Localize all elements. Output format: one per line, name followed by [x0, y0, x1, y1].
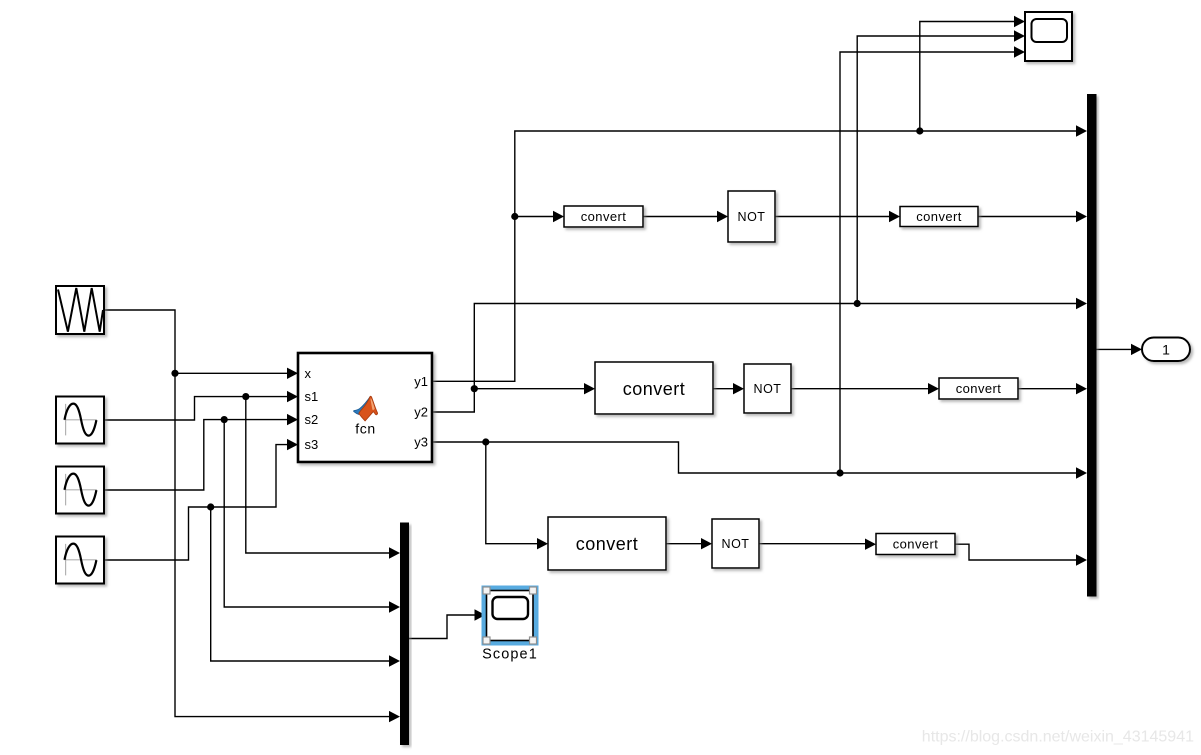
- arrow: Scope in3: [1014, 46, 1025, 57]
- wire: branch y3 down to big convert (bottom row): [486, 442, 546, 544]
- wire: branch y1 row up to Scope in1: [920, 22, 1023, 132]
- arrow: fcn s1: [287, 391, 298, 402]
- arrow: Mux2 in2: [389, 601, 400, 612]
- svg-text:NOT: NOT: [722, 537, 750, 551]
- source block: Sine Wave1: [56, 467, 104, 514]
- icon: MATLAB membrane logo blue wing: [354, 397, 371, 415]
- wire: fcn y1 up and across to Mux1 in1: [432, 131, 1085, 381]
- block: Out1 port oval: [1142, 338, 1190, 362]
- icon: scope screen: [1032, 19, 1068, 42]
- block: Data Type Conversion (top-right small convert): [900, 207, 978, 227]
- block: Scope (top right): [1025, 12, 1072, 61]
- wire: fcn y2 up and across to Mux1 in3: [432, 304, 1085, 413]
- block: Scope1 (selected): [482, 586, 539, 663]
- svg-text:y2: y2: [414, 405, 428, 420]
- junction: y2 to middle convert: [471, 385, 478, 392]
- wire: Repeating Sequence out to Mux2 in4 trunk: [104, 310, 398, 717]
- block: Mux2 (small vertical bar): [400, 523, 409, 746]
- arrow: convert top-right in: [889, 211, 900, 222]
- svg-text:NOT: NOT: [754, 382, 782, 396]
- wire: branch y2 to big convert (middle row): [474, 388, 593, 390]
- block: MATLAB Function fcn: [298, 353, 432, 462]
- selection highlight frame: [482, 586, 539, 646]
- wire: branch s1 signal down to Mux2 in1: [246, 397, 398, 553]
- arrow: big convert middle in: [584, 383, 595, 394]
- svg-text:NOT: NOT: [738, 210, 766, 224]
- wire: branch y1 to convert (top row): [515, 216, 562, 218]
- icon: sine curve: [65, 544, 97, 576]
- wire: big convert bottom out to NOT bottom in: [666, 543, 710, 545]
- svg-text:https://blog.csdn.net/weixin_4: https://blog.csdn.net/weixin_43145941: [922, 729, 1194, 746]
- svg-text:convert: convert: [916, 209, 961, 224]
- junction: y2 row to Scope: [854, 300, 861, 307]
- arrowheads: [287, 16, 1142, 723]
- wire: convert mid-right out to Mux1 in4: [1018, 388, 1085, 390]
- arrow: convert bottom-right in: [865, 539, 876, 550]
- icon: axes: [65, 474, 97, 506]
- wire: Sine1 out to fcn input s1: [104, 397, 296, 420]
- junction: y3 row to Scope: [836, 469, 843, 476]
- arrow: Mux2 in3: [389, 655, 400, 666]
- source block: Sine Wave2: [56, 537, 104, 584]
- svg-text:s3: s3: [305, 437, 319, 452]
- junction: s1 branch: [242, 393, 249, 400]
- icon: triangle waveform: [58, 288, 103, 332]
- wire: branch y2 row up to Scope in2: [857, 36, 1023, 304]
- arrow: Mux1 in4: [1076, 383, 1087, 394]
- arrow: fcn s3: [287, 439, 298, 450]
- arrow: Scope1 in: [475, 609, 486, 620]
- wire: big convert out to NOT middle in: [713, 388, 742, 390]
- icon: axes: [65, 404, 97, 436]
- icon: axes: [65, 544, 97, 576]
- scope1 body: [487, 591, 534, 641]
- junction: y1 row to Scope: [916, 127, 923, 134]
- wire: branch to fcn input x: [175, 372, 296, 374]
- svg-text:y3: y3: [414, 435, 428, 450]
- block: Data Type Conversion (bottom-right small convert): [876, 534, 955, 555]
- arrow: Scope in1: [1014, 16, 1025, 27]
- arrow: fcn s2: [287, 414, 298, 425]
- block: Data Type Conversion (bottom big convert): [548, 517, 666, 570]
- wire: branch s2 signal down to Mux2 in2: [224, 420, 398, 607]
- arrow: Mux1 in6: [1076, 554, 1087, 565]
- wire: NOT top out to convert top-right in: [775, 216, 898, 218]
- junction: x branch: [171, 370, 178, 377]
- block: Logical Operator NOT (top): [728, 191, 775, 242]
- icon: sine curve: [65, 404, 97, 436]
- source block: Repeating Sequence: [56, 286, 104, 334]
- junction: s2 branch: [221, 416, 228, 423]
- wire: Sine2 out to fcn input s2: [104, 420, 296, 490]
- arrow: Mux2 in1: [389, 547, 400, 558]
- wire: convert top-right out to Mux1 in2: [978, 216, 1085, 218]
- source block: Sine Wave: [56, 397, 104, 444]
- arrow: NOT top in: [717, 211, 728, 222]
- arrow: fcn x: [287, 368, 298, 379]
- block: Mux1 (large vertical bar): [1087, 94, 1097, 597]
- svg-text:convert: convert: [956, 381, 1001, 396]
- svg-text:s1: s1: [305, 389, 319, 404]
- svg-text:convert: convert: [576, 534, 639, 554]
- svg-text:convert: convert: [623, 379, 686, 399]
- icon: scope1 screen: [493, 597, 529, 619]
- arrow: Mux1 in1: [1076, 125, 1087, 136]
- wire: convert top out to NOT top in: [643, 216, 726, 218]
- block: Data Type Conversion (mid-right small convert): [939, 378, 1018, 399]
- wire: Mux1 out to Out1 port: [1097, 348, 1141, 350]
- arrow: NOT middle in: [733, 383, 744, 394]
- icon: MATLAB membrane logo orange body: [359, 396, 378, 421]
- arrow: Mux1 in2: [1076, 211, 1087, 222]
- block: Data Type Conversion (top small convert): [564, 206, 643, 227]
- arrow: Mux1 in5: [1076, 467, 1087, 478]
- wire: Sine3 out to fcn input s3: [104, 445, 296, 560]
- junction: s3 branch: [207, 503, 214, 510]
- arrow: Out1 in: [1131, 344, 1142, 355]
- wire: NOT bottom out to convert bottom-right in: [759, 543, 874, 545]
- arrow: Mux1 in3: [1076, 298, 1087, 309]
- block: Logical Operator NOT (middle): [744, 364, 791, 413]
- svg-text:fcn: fcn: [355, 421, 375, 437]
- wire: fcn y3 across and down to Mux1 in5: [432, 442, 1085, 473]
- wire: branch y3 row up to Scope in3: [840, 52, 1023, 473]
- junction: y1 to top convert: [511, 213, 518, 220]
- svg-text:y1: y1: [414, 374, 428, 389]
- icon: sine curve: [65, 474, 97, 506]
- wire: convert bottom-right out to Mux1 in6: [955, 544, 1085, 560]
- svg-text:x: x: [305, 366, 312, 381]
- icon: MATLAB logo highlight: [371, 398, 375, 409]
- wire: Mux2 out to Scope1 in: [409, 615, 483, 639]
- arrow: Mux2 in4: [389, 711, 400, 722]
- svg-text:s2: s2: [305, 412, 319, 427]
- wire: branch s3 signal down to Mux2 in3: [211, 507, 398, 661]
- arrow: NOT bottom in: [701, 538, 712, 549]
- block: Logical Operator NOT (bottom): [712, 519, 759, 568]
- arrow: convert top in: [553, 211, 564, 222]
- arrow: convert mid-right in: [928, 383, 939, 394]
- junction: y3 to bottom convert: [482, 438, 489, 445]
- svg-text:convert: convert: [581, 209, 626, 224]
- wire: NOT middle out to convert mid-right in: [791, 388, 937, 390]
- arrow: Scope in2: [1014, 30, 1025, 41]
- svg-text:1: 1: [1162, 342, 1170, 358]
- arrow: big convert bottom in: [537, 538, 548, 549]
- svg-text:convert: convert: [893, 537, 938, 552]
- block: Data Type Conversion (middle big convert): [595, 362, 713, 414]
- svg-text:Scope1: Scope1: [482, 647, 538, 663]
- selection corner handles: [483, 587, 490, 594]
